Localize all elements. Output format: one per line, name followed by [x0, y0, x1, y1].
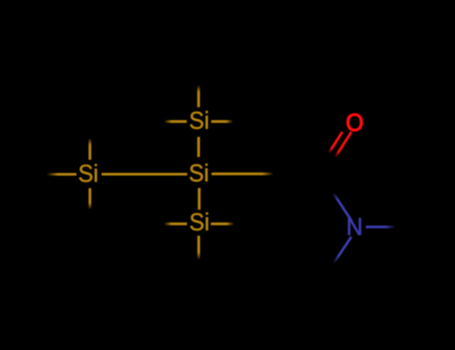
wire C=O double bond main line: [335, 132, 351, 158]
wire methyl bond right from Si1: [211, 120, 233, 123]
wire methyl bond up from Si1: [197, 85, 200, 107]
wire bond Si2-Si4: [198, 188, 201, 210]
silicon Si3 (left trimethylsilyl): [79, 164, 97, 182]
silicon Si2 (central): [190, 164, 208, 182]
wire bond C-N: [333, 193, 352, 221]
wire methyl bond down from Si4: [197, 236, 200, 260]
wire bond Si1-Si2: [197, 137, 200, 157]
silicon Si1 (top trimethylsilyl): [190, 111, 208, 129]
wire methyl bond right from N: [366, 226, 396, 229]
nitrogen N (dimethylamino): [348, 218, 361, 235]
silicon Si4 (bottom trimethylsilyl): [190, 212, 208, 230]
wire C=O double bond inner line: [329, 132, 343, 153]
wire methyl bond down from Si3: [89, 188, 92, 209]
wire bond Si3-Si2: [102, 173, 188, 176]
oxygen O (carbonyl): [347, 114, 363, 131]
wire methyl bond right from Si4: [211, 223, 234, 226]
wire methyl bond up from Si3: [89, 138, 92, 160]
wire methyl bond down-left from N: [334, 237, 352, 264]
wire methyl bond left from Si4: [164, 223, 187, 226]
wire bond Si2-C (fades to carbon): [212, 173, 280, 176]
wire methyl bond left from Si1: [164, 120, 187, 123]
wire methyl bond left from Si3: [47, 173, 77, 176]
